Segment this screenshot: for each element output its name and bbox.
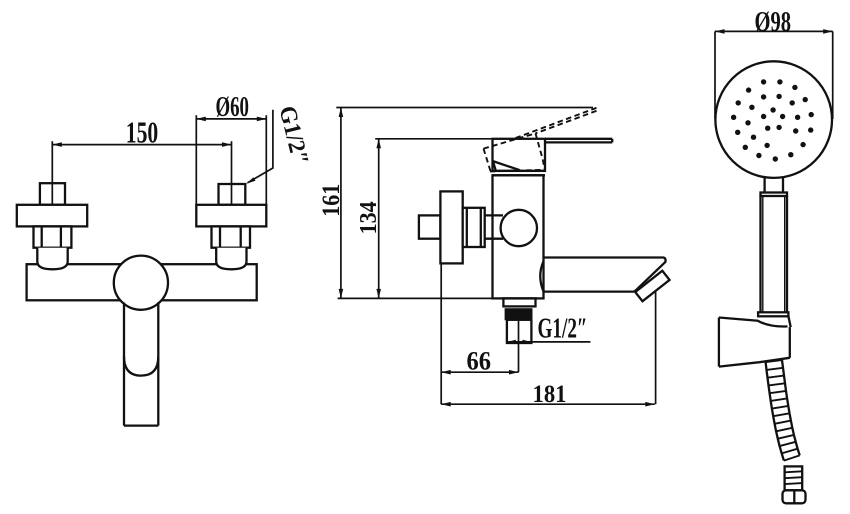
svg-text:G1/2″: G1/2″ [538,313,588,344]
handle lever [124,302,158,425]
svg-text:Ø60: Ø60 [215,92,249,123]
right connector [216,248,246,270]
G1/2 leader left view [246,103,313,183]
outlet center line [518,321,520,372]
dimension 66 [441,263,518,404]
right nut [212,226,251,247]
left nut [34,226,72,247]
left wall flange [17,205,87,227]
wall flange side [440,191,462,263]
extension line mid [375,138,492,140]
svg-text:150: 150 [126,115,159,150]
svg-text:66: 66 [467,347,492,376]
svg-text:134: 134 [356,201,382,234]
svg-text:161: 161 [318,184,345,217]
handle base side [493,139,546,171]
svg-text:Ø98: Ø98 [755,6,792,38]
shower neck [765,176,783,192]
dimension D98 [715,6,833,119]
aerator block [635,271,669,302]
spout [540,258,665,293]
hose nut [783,490,806,503]
ferrule ring [758,312,788,316]
shower hose [766,360,800,461]
shower handle tube [761,193,788,313]
dimension D60 line [196,92,266,205]
svg-text:181: 181 [533,379,567,408]
left connector [37,248,67,270]
shower head [715,61,832,178]
connection tube [485,215,503,238]
dimension 150 line [52,115,231,205]
dimension G1/2 outlet [506,313,590,344]
dimension 181 [441,292,655,408]
outlet pipe [507,320,532,343]
outlet thread [505,309,532,320]
eccentric body [419,215,441,238]
dashed lever raised [484,108,597,172]
body band [493,171,546,175]
extension line top [336,107,593,109]
dimension 161 [318,108,345,299]
outlet step [503,298,535,306]
boss circle [501,210,537,246]
wall bracket [719,316,791,366]
right mounting cap [219,184,246,205]
faucet body side [493,175,544,298]
extension line bottom [338,297,493,299]
nozzle dots [731,79,814,161]
left mounting cap [40,183,65,205]
lever blade [545,139,612,143]
handle skirt edge [493,161,520,170]
hose end fitting [785,466,803,490]
handle pivot circle [114,256,168,310]
nut side [463,208,485,247]
right wall flange [196,205,266,227]
faucet body front [27,264,257,300]
dimension 134 [356,139,382,299]
